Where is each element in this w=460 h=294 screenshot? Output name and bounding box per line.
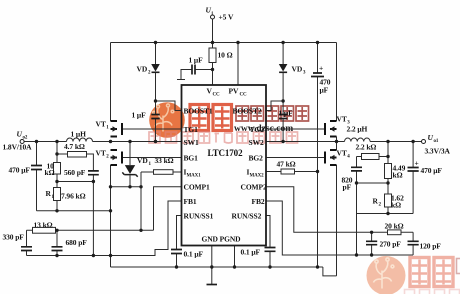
svg-text:μF: μF bbox=[320, 86, 329, 95]
svg-text:MAX1: MAX1 bbox=[187, 174, 202, 179]
svg-text:FB1: FB1 bbox=[184, 197, 197, 206]
svg-text:BOOST2: BOOST2 bbox=[233, 107, 262, 116]
svg-text:47 kΩ: 47 kΩ bbox=[277, 160, 296, 169]
svg-text:0.1 μF: 0.1 μF bbox=[241, 248, 261, 257]
svg-text:120 pF: 120 pF bbox=[420, 242, 442, 251]
svg-text:560 pF: 560 pF bbox=[64, 168, 86, 177]
svg-text:SW2: SW2 bbox=[249, 138, 264, 147]
svg-text:7.96 kΩ: 7.96 kΩ bbox=[61, 192, 86, 201]
svg-text:COMP2: COMP2 bbox=[241, 183, 268, 192]
svg-text:kΩ: kΩ bbox=[45, 168, 55, 177]
svg-text:1: 1 bbox=[106, 126, 109, 131]
svg-text:1.8V/10A: 1.8V/10A bbox=[3, 143, 33, 152]
svg-text:2: 2 bbox=[106, 155, 109, 160]
svg-text:MAX2: MAX2 bbox=[250, 174, 265, 179]
svg-text:kΩ: kΩ bbox=[393, 171, 403, 180]
svg-text:o2: o2 bbox=[23, 136, 28, 141]
svg-text:33 kΩ: 33 kΩ bbox=[155, 156, 174, 165]
svg-text:680 pF: 680 pF bbox=[66, 238, 88, 247]
svg-text:1: 1 bbox=[149, 162, 152, 167]
svg-text:1 μF: 1 μF bbox=[279, 109, 294, 118]
svg-text:VT: VT bbox=[337, 149, 347, 158]
svg-text:VD: VD bbox=[137, 156, 148, 165]
svg-text:CC: CC bbox=[213, 93, 221, 98]
svg-text:1 μF: 1 μF bbox=[132, 111, 147, 120]
svg-text:VT: VT bbox=[96, 120, 106, 129]
svg-text:330 pF: 330 pF bbox=[3, 233, 25, 242]
svg-text:1 μH: 1 μH bbox=[71, 130, 87, 139]
svg-text:o1: o1 bbox=[434, 139, 439, 144]
svg-text:+: + bbox=[415, 159, 419, 168]
svg-text:470 μF: 470 μF bbox=[9, 166, 31, 175]
svg-text:4: 4 bbox=[347, 155, 350, 160]
svg-text:2.2 kΩ: 2.2 kΩ bbox=[356, 143, 377, 152]
svg-text:COMP1: COMP1 bbox=[184, 183, 211, 192]
svg-text:3: 3 bbox=[303, 71, 306, 76]
svg-text:20 kΩ: 20 kΩ bbox=[385, 222, 404, 231]
svg-text:+5 V: +5 V bbox=[219, 13, 234, 22]
svg-text:0.1 μF: 0.1 μF bbox=[184, 250, 204, 259]
svg-text:PV: PV bbox=[229, 87, 239, 96]
svg-text:+: + bbox=[319, 64, 323, 73]
svg-text:VT: VT bbox=[337, 115, 347, 124]
svg-text:3.3V/3A: 3.3V/3A bbox=[425, 147, 451, 156]
svg-text:4.7 kΩ: 4.7 kΩ bbox=[64, 142, 85, 151]
svg-text:VT: VT bbox=[96, 149, 106, 158]
svg-text:BG1: BG1 bbox=[184, 154, 199, 163]
svg-text:pF: pF bbox=[343, 183, 352, 192]
svg-text:kΩ: kΩ bbox=[391, 201, 401, 210]
svg-text:2: 2 bbox=[379, 203, 382, 208]
svg-text:SW1: SW1 bbox=[184, 138, 199, 147]
svg-text:VD: VD bbox=[137, 65, 148, 74]
svg-text:TG2: TG2 bbox=[250, 125, 265, 134]
svg-text:VD: VD bbox=[292, 65, 303, 74]
svg-text:RUN/SS1: RUN/SS1 bbox=[184, 212, 214, 221]
svg-text:GND PGND: GND PGND bbox=[202, 235, 242, 244]
svg-text:RUN/SS2: RUN/SS2 bbox=[232, 212, 262, 221]
svg-text:470 μF: 470 μF bbox=[421, 166, 443, 175]
svg-text:2: 2 bbox=[148, 71, 151, 76]
svg-text:10 Ω: 10 Ω bbox=[218, 51, 233, 60]
svg-text:270 pF: 270 pF bbox=[380, 240, 402, 249]
svg-text:BOOST1: BOOST1 bbox=[184, 107, 213, 116]
svg-text:13 kΩ: 13 kΩ bbox=[34, 221, 53, 230]
svg-text:FB2: FB2 bbox=[252, 197, 265, 206]
svg-text:TG1: TG1 bbox=[184, 125, 199, 134]
svg-text:1 μF: 1 μF bbox=[189, 56, 204, 65]
svg-text:BG2: BG2 bbox=[249, 154, 264, 163]
svg-text:CC: CC bbox=[240, 93, 248, 98]
svg-text:LTC1702: LTC1702 bbox=[208, 148, 244, 158]
svg-text:2.2 μH: 2.2 μH bbox=[347, 125, 368, 134]
